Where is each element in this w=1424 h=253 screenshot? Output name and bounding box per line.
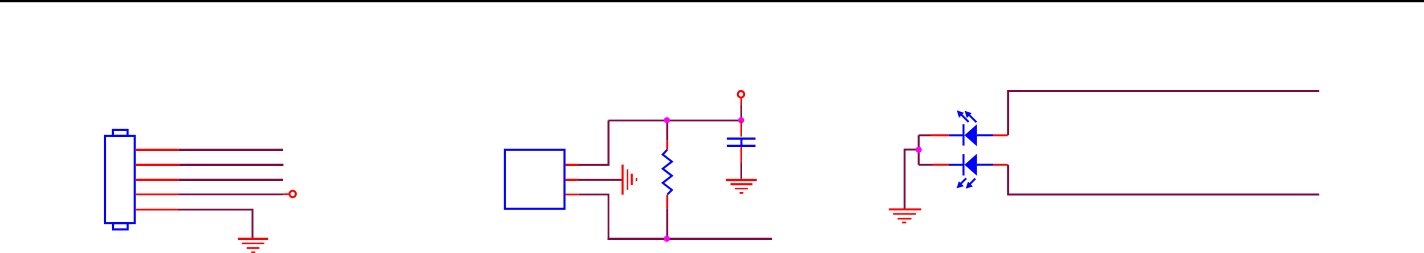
capacitor C1 top pin bbox=[740, 121, 742, 137]
wire LED left vertical bbox=[918, 135, 920, 165]
wire net1 bbox=[179, 149, 283, 151]
wire net2 bbox=[179, 164, 283, 166]
wire pin3 to bottom rail bbox=[579, 195, 609, 239]
junction top rail at resistor bbox=[664, 117, 670, 123]
U1 pin 3 stub bbox=[566, 194, 579, 196]
resistor R1 top pin bbox=[666, 140, 668, 149]
ground GND2 rotated bbox=[623, 165, 637, 195]
ground GND1 bbox=[238, 239, 268, 253]
ground GND4 bbox=[889, 209, 921, 222]
LED D1 left pin stub bbox=[931, 134, 949, 136]
LED D2 emission arrow 2 bbox=[966, 179, 976, 189]
connector J1 body bbox=[105, 130, 135, 230]
wire resistor to bottom rail bbox=[666, 209, 668, 239]
open terminal circle bbox=[290, 191, 296, 197]
LED D2 right pin stub bbox=[993, 164, 1008, 166]
capacitor C1 bottom pin bbox=[740, 147, 742, 163]
pin 3 stub bbox=[136, 179, 179, 181]
wire D1 to top line bbox=[1008, 91, 1319, 135]
resistor R1 body bbox=[663, 150, 672, 195]
LED D1 right pin stub bbox=[993, 134, 1008, 136]
component U1 box bbox=[505, 150, 565, 209]
terminal stub bbox=[740, 98, 742, 105]
pin 5 stub bbox=[136, 209, 178, 211]
pin 1 stub bbox=[136, 149, 179, 151]
wire net5 vertical bbox=[252, 209, 254, 239]
LED D1 emission arrow 1 bbox=[957, 110, 969, 122]
junction LED net bbox=[916, 147, 922, 153]
ground GND3 bbox=[726, 180, 757, 193]
wire to LED D2 bbox=[919, 164, 933, 166]
U1 pin 2 stub bbox=[566, 179, 578, 181]
wire capacitor to ground bbox=[740, 163, 742, 179]
open terminal circle VCC bbox=[738, 91, 744, 97]
LED D1 emission arrow 2 bbox=[965, 111, 977, 123]
LED D2 left pin stub bbox=[933, 164, 950, 166]
wire net4 bbox=[178, 193, 283, 195]
bottom rail wire bbox=[608, 238, 773, 240]
junction top rail at capacitor bbox=[738, 117, 744, 123]
wire terminal to junction bbox=[740, 105, 742, 121]
resistor R1 bottom pin bbox=[666, 195, 668, 209]
wire pin2 to ground bbox=[578, 179, 622, 181]
wire net3 bbox=[179, 179, 283, 181]
pin 4 stub bbox=[136, 193, 178, 195]
wire pin1 to rail bbox=[578, 121, 609, 165]
LED D2 symbol bbox=[949, 154, 993, 176]
wire D2 to bottom line bbox=[1008, 165, 1319, 195]
capacitor C1 plates bbox=[727, 139, 756, 146]
border frame top edge bbox=[0, 0, 1424, 2]
junction bottom rail at resistor bbox=[664, 236, 670, 242]
LED D2 emission arrow 1 bbox=[957, 178, 967, 188]
wire rail to resistor bbox=[666, 121, 668, 141]
pin 2 stub bbox=[136, 164, 179, 166]
U1 pin 1 stub bbox=[566, 164, 578, 166]
top rail wire bbox=[609, 120, 742, 122]
LED D1 symbol bbox=[949, 124, 993, 146]
terminal stub bbox=[283, 193, 289, 195]
wire net5 horizontal bbox=[178, 209, 253, 211]
wire junction to ground corner bbox=[905, 150, 919, 210]
wire to LED D1 bbox=[919, 134, 931, 136]
